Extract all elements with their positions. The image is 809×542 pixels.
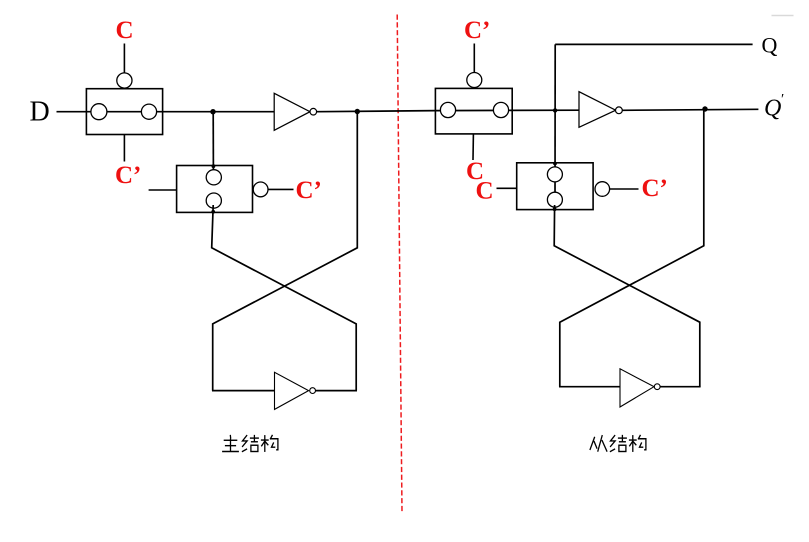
TG3 right pass circle [493,102,508,117]
TG4 bottom pass circle [547,192,562,207]
wire TG4 control to C' label [610,188,639,190]
TG4 right control bubble [595,182,610,197]
char 从 [590,435,607,452]
svg-text:D: D [30,97,50,128]
char 主 [222,435,239,452]
inverter U3 (slave forward) [579,92,616,128]
wire latch loop bottom left to inverter U2 input [212,390,275,392]
stray grey artifact line top right [772,15,794,17]
node A junction dot (master internal node) [210,109,215,114]
transmission gate TG2 body (master feedback) [177,166,253,213]
wire C to gate TG1 control bubble [123,44,125,74]
wire TG2 output down-cross to bottom right of latch loop [212,205,357,391]
wire node A side: from output node down-cross to bottom left of latch loop [213,112,358,391]
TG1 right pass circle [141,104,156,119]
svg-text:C: C [116,17,134,44]
TG3 left pass circle [440,102,455,117]
node B junction dot (master output) [355,109,360,114]
wire D input to inverter U1 (through TG1) [57,111,275,113]
TG3 top control bubble [467,73,482,88]
transmission gate TG4 body (slave feedback) [517,163,593,210]
inverter U4 (slave feedback, in loop) [620,369,654,407]
caption slave: 从结构 [590,435,646,452]
TG1 top control bubble [117,73,132,88]
char 结 [242,435,259,452]
wire TG4 output down-cross to bottom right of slave loop [554,205,700,387]
wire slave output node down-cross to bottom left of slave loop [560,109,704,387]
wire TG2 control to C' label [268,188,294,190]
wire TG1 bottom control stub [123,135,125,162]
TG2 bottom pass circle [206,193,221,208]
TG1 left pass circle [91,104,107,120]
TG2 entry thickening top [212,164,216,168]
node C crossing dot on main wire [553,108,557,112]
svg-text:C’: C’ [464,17,490,44]
divider red dashed line between master and slave [397,15,402,512]
svg-text:C: C [476,177,494,204]
char 构 [261,435,278,452]
char 结 [610,435,627,452]
wire master node B to inverter U3 input (through TG3) [436,109,580,111]
char 构 [629,435,646,452]
wire C to TG4 left stub [497,187,517,189]
wire node A down to feedback gate TG2 [212,112,214,173]
wire C' to TG3 control bubble [473,44,475,74]
wire U3 output to Q' [622,109,758,110]
TG2 exit thickening bottom [211,210,215,214]
TG2 left input stub [149,189,177,191]
inverter U1 (master forward) [274,93,310,130]
TG2 right control bubble [253,182,268,197]
TG2 top pass circle [206,170,221,185]
svg-text:C’: C’ [115,162,141,189]
inverter U2 (master feedback, in loop) [275,372,309,409]
wire inverter U4 output to loop bottom right [660,386,700,388]
TG4 exit thickening bottom [553,207,557,211]
svg-text:′: ′ [781,92,784,108]
transmission gate TG1 body [86,89,162,135]
wire inverter U2 output to loop bottom right [315,390,357,392]
svg-text:C’: C’ [642,175,668,202]
TG4 top pass circle [547,167,562,182]
wire slave loop bottom left to inverter U4 input [559,386,620,388]
U4 output bubble [654,384,660,390]
transmission gate TG3 body [435,88,512,133]
svg-text:Q: Q [762,32,778,57]
U1 output bubble [310,108,317,115]
wire TG3 bottom control stub [472,134,474,160]
caption master: 主结构 [222,435,278,452]
node D junction dot (slave output) [702,106,707,111]
U3 output bubble [616,107,623,114]
wire top to Q output [555,43,752,45]
wire Q-node vertical: top line down through node C to TG4 [554,44,556,206]
wire U1 output to master output node B [317,111,436,112]
svg-text:Q: Q [764,96,781,122]
svg-text:C’: C’ [296,177,322,204]
TG4 entry thickening top [553,162,557,166]
U2 output bubble [310,388,316,394]
